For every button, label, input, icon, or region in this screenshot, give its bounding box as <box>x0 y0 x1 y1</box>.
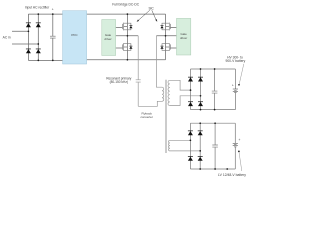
svg-text:+: + <box>238 138 240 142</box>
svg-text:converter: converter <box>140 115 153 119</box>
svg-text:(80-150 kHz): (80-150 kHz) <box>110 80 128 84</box>
svg-text:PFC: PFC <box>71 33 78 37</box>
svg-text:900-V battery: 900-V battery <box>226 59 246 63</box>
svg-text:Input AC rectifier: Input AC rectifier <box>25 5 50 9</box>
svg-text:Full bridge DC-DC: Full bridge DC-DC <box>112 3 140 7</box>
svg-text:+: + <box>52 7 54 11</box>
svg-text:driver: driver <box>180 36 187 40</box>
svg-text:SiC: SiC <box>148 7 154 11</box>
svg-text:AC in: AC in <box>3 35 11 39</box>
svg-text:LV 12/48-V battery: LV 12/48-V battery <box>218 173 246 177</box>
svg-text:+: + <box>232 83 234 87</box>
svg-text:driver: driver <box>104 37 111 41</box>
